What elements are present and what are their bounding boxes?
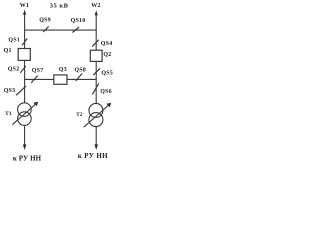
svg-text:QS6: QS6 <box>100 89 112 95</box>
transformer T2 <box>76 103 111 127</box>
feeder W1 arrow <box>23 10 26 15</box>
wire T1 to LV arrow <box>23 125 27 150</box>
wire W1 vertical upper <box>24 15 26 104</box>
disconnector QS4 <box>92 40 112 47</box>
wire 35kV bridge <box>24 29 97 31</box>
transformer T1 <box>5 102 38 126</box>
svg-text:QS4: QS4 <box>101 41 113 47</box>
svg-text:QS7: QS7 <box>32 68 44 74</box>
svg-text:Q2: Q2 <box>103 52 111 58</box>
breaker Q2 <box>90 50 111 61</box>
disconnector QS3 <box>4 86 26 95</box>
wire T2 to LV arrow <box>94 127 98 150</box>
disconnector QS1 <box>8 37 27 45</box>
svg-text:Q3: Q3 <box>59 67 67 73</box>
disconnector QS6 <box>92 83 112 95</box>
disconnector QS10 <box>71 18 86 32</box>
svg-text:W2: W2 <box>91 3 100 9</box>
svg-text:W1: W1 <box>20 3 29 9</box>
disconnector QS9 <box>39 18 51 32</box>
disconnector QS8 <box>74 68 86 81</box>
disconnector QS5 <box>93 68 113 76</box>
svg-text:35 кВ: 35 кВ <box>50 2 69 9</box>
wire W2 vertical upper <box>95 15 97 104</box>
breaker Q3 <box>54 67 67 84</box>
disconnector QS7 <box>31 68 43 83</box>
disconnector QS2 <box>8 66 26 73</box>
svg-text:QS8: QS8 <box>74 68 86 74</box>
svg-text:к РУ НН: к РУ НН <box>13 154 42 162</box>
svg-text:QS2: QS2 <box>8 67 20 73</box>
svg-text:к РУ НН: к РУ НН <box>78 152 108 160</box>
feeder W2 arrow <box>95 10 98 15</box>
svg-text:QS1: QS1 <box>8 37 20 43</box>
svg-text:QS5: QS5 <box>101 70 113 76</box>
svg-text:T2: T2 <box>76 112 83 118</box>
svg-text:QS3: QS3 <box>4 88 16 94</box>
breaker Q1 <box>4 48 31 60</box>
svg-text:QS9: QS9 <box>39 18 51 24</box>
svg-text:QS10: QS10 <box>71 18 86 24</box>
svg-text:Q1: Q1 <box>4 48 12 54</box>
wire tie line <box>25 78 97 80</box>
svg-text:T1: T1 <box>5 111 12 117</box>
